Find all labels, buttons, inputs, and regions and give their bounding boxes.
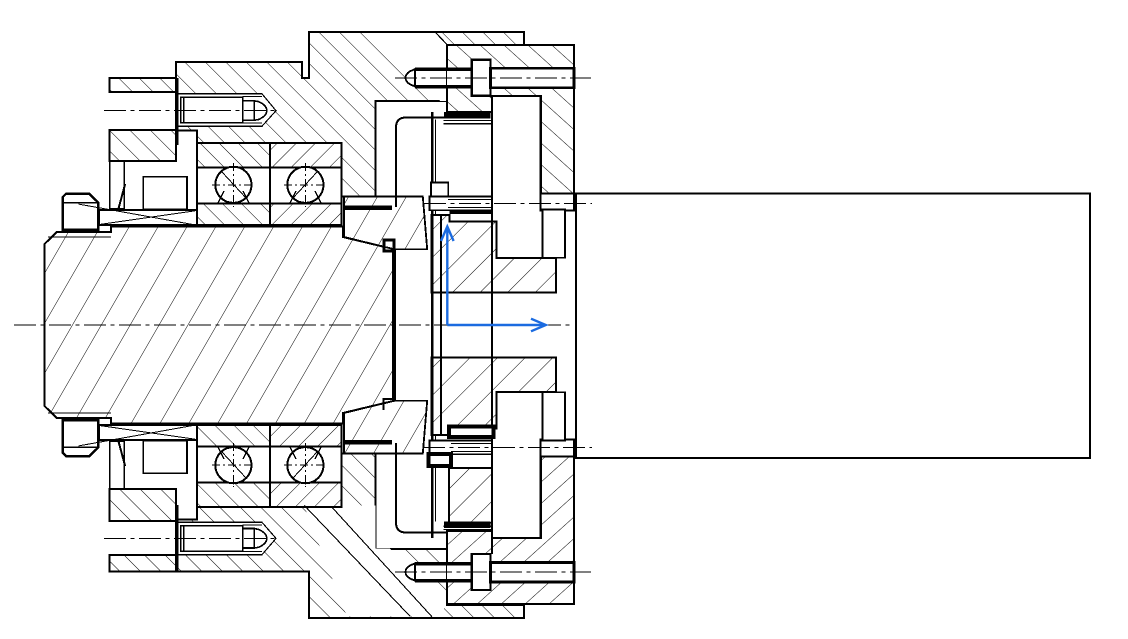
spacer diag top — [79, 204, 197, 225]
left nut bottom — [63, 420, 99, 456]
housing top block hatched — [176, 32, 524, 197]
flange bolt hole band bottom — [447, 563, 574, 582]
cap lower band — [109, 130, 176, 161]
sleeve bore wall white top — [543, 210, 566, 258]
retaining square top — [384, 240, 394, 251]
washer top-right — [472, 60, 491, 96]
flange bolt hole band top — [447, 69, 574, 88]
ball top left shoulders — [218, 191, 249, 203]
bolt hole white top-left — [176, 94, 276, 126]
cap hole edges — [109, 91, 176, 93]
bolt shank thick top-right — [415, 68, 472, 71]
bearing frame top — [197, 143, 342, 225]
cap top band — [109, 78, 176, 92]
shaft end face thick — [392, 249, 396, 401]
ball bottom left — [215, 447, 251, 483]
cap bottom upper band — [109, 489, 176, 521]
ball bottom right — [287, 447, 323, 483]
blue Y axis arrow — [441, 227, 454, 326]
collar top — [344, 197, 427, 250]
hub hatched bottom — [432, 358, 556, 435]
cl bottom-right bolt — [395, 571, 591, 573]
inner ring band bottom — [197, 425, 270, 447]
mid bolt bottom head thick square — [429, 454, 451, 466]
ball crosshair top right — [284, 184, 327, 186]
hub joint thick bar top — [444, 112, 490, 119]
ball crosshair top left — [212, 184, 255, 186]
mid bolt top body — [429, 197, 492, 211]
joint line pair top — [444, 120, 493, 122]
hub left wall thick — [431, 112, 434, 538]
sleeve foot bottom — [541, 440, 574, 457]
cl mid bolt bottom — [423, 446, 592, 448]
ball crosshair bottom right — [284, 464, 327, 466]
hub inner wall line — [440, 214, 442, 436]
sleeve foot top — [541, 194, 574, 211]
hub joint thick bar bottom — [444, 521, 490, 528]
rib white band top — [379, 33, 447, 70]
seal wedge line bottom — [118, 441, 125, 466]
spacer band top — [99, 210, 197, 225]
cl top-left bolt — [104, 110, 276, 112]
hub lower column hatched — [449, 468, 492, 523]
hub wall second line top — [435, 120, 437, 216]
rib white band bottom — [304, 506, 444, 617]
hub hatched top — [432, 215, 556, 292]
collar bottom thick bar — [344, 440, 392, 445]
blue X axis arrow — [447, 319, 546, 332]
mid bolt bottom body — [429, 441, 492, 455]
flange bottom block — [447, 456, 574, 604]
seal ring bottom A — [110, 441, 125, 489]
collar bottom — [344, 401, 427, 454]
spacer band bottom — [99, 425, 197, 440]
spacer diag bottom — [79, 425, 197, 446]
bolt hole white bottom-left — [176, 522, 276, 554]
seal wedge line top — [118, 184, 125, 209]
retaining step bottom — [383, 399, 394, 410]
hub bottom thick framed rect — [449, 427, 494, 438]
collar top thick bar — [344, 206, 392, 211]
housing bottom block hatched — [176, 453, 524, 618]
outer ring band top — [197, 143, 270, 168]
ball top right — [287, 167, 323, 203]
bolt head bottom-left — [181, 526, 243, 552]
seal ring top B — [143, 177, 187, 209]
cap right edge thick top — [176, 78, 179, 145]
bolt hole white top-right — [404, 70, 447, 86]
bolt dog point + tip bottom-left — [243, 529, 255, 549]
cl top-right bolt — [395, 77, 591, 79]
bolt tip bottom-right — [406, 563, 416, 580]
sleeve bore wall white bottom — [543, 392, 566, 440]
hub spigot curve top — [396, 118, 447, 208]
main centerline — [14, 324, 570, 326]
bolt tip top-right — [406, 69, 416, 86]
seal ring top A — [110, 161, 125, 209]
seal ring bottom B — [143, 441, 187, 473]
bolt dog point + tip top-left — [243, 101, 255, 121]
hub top thick bar — [450, 210, 493, 214]
ball top right shoulders — [290, 191, 321, 203]
cl bottom-left bolt — [104, 537, 276, 539]
outer ring band bottom — [197, 482, 270, 507]
bolt shaft right part bottom — [491, 563, 575, 583]
cl mid bolt top — [424, 202, 592, 204]
shaft body — [45, 227, 395, 424]
cap bottom band — [109, 555, 176, 572]
bolt head top-left — [181, 97, 243, 123]
joint line pair bottom — [444, 529, 493, 531]
bearing frame bottom — [197, 425, 342, 507]
ball crosshair bottom left — [212, 464, 255, 466]
hub spigot curve bottom — [396, 443, 447, 533]
hatch line right of rib band — [436, 33, 448, 45]
bolt hole white bottom-right — [404, 564, 447, 580]
bolt shank thick bottom-right — [415, 562, 472, 565]
cap right edge thick bottom — [176, 505, 179, 572]
ball top left — [215, 167, 251, 203]
hub wall second line bottom — [435, 435, 437, 522]
bolt shaft right part top — [491, 68, 575, 88]
shaft step lines left — [110, 227, 112, 232]
flange top block — [447, 45, 574, 194]
hub right edge — [491, 96, 493, 554]
mid bolt top head — [431, 183, 448, 197]
inner ring band top — [197, 203, 270, 225]
washer bottom-right — [472, 554, 491, 590]
